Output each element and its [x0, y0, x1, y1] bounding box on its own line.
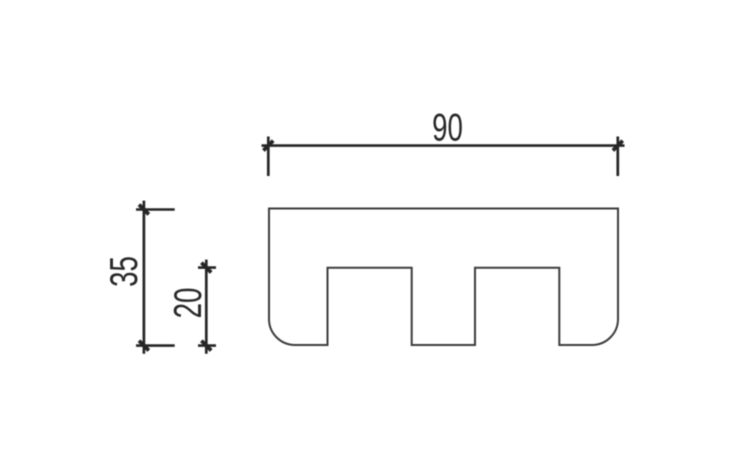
dimension 20: bottom tick	[201, 341, 211, 351]
dimension 90: left extension line	[267, 137, 270, 177]
dimension 90: value label "90"	[432, 106, 463, 150]
dimension 20: dimension line	[205, 260, 208, 354]
dimension 20: top extension line	[198, 266, 216, 269]
dimension 90: right tick	[613, 141, 623, 151]
dimension 90: dimension line	[262, 144, 625, 147]
dimension 20: bottom extension line	[198, 344, 216, 347]
dimension 20: value label "20"	[167, 288, 211, 319]
profile outline (plank cross-section with two bottom grooves)	[269, 209, 618, 346]
dimension 35: top extension line	[136, 208, 175, 211]
dimension 35: value label "35"	[103, 256, 147, 287]
dimension 90: right extension line	[616, 137, 619, 177]
dimension 20: top tick	[201, 263, 211, 273]
svg-text:20: 20	[167, 288, 211, 319]
svg-text:35: 35	[103, 256, 147, 287]
dimension 90: left tick	[263, 141, 273, 151]
dimension 35: bottom extension line	[136, 344, 175, 347]
dimension 35: dimension line	[143, 201, 146, 354]
dimension 35: top tick	[139, 205, 149, 215]
svg-text:90: 90	[432, 106, 463, 150]
dimension 35: bottom tick	[139, 341, 149, 351]
